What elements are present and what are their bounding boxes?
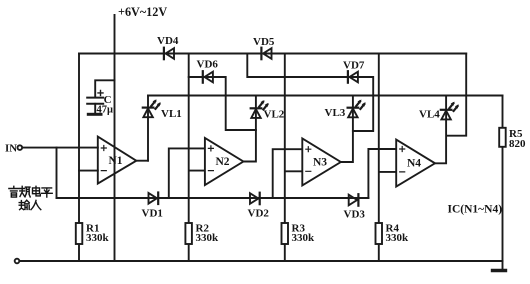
wire threshold line xyxy=(57,197,369,199)
diode VD3 xyxy=(344,194,366,220)
resistor R2 xyxy=(185,222,219,244)
svg-text:330k: 330k xyxy=(292,232,316,244)
terminal bottom-left circle xyxy=(15,259,20,264)
wire LED top line to R5 xyxy=(148,95,503,97)
resistor R4 xyxy=(376,222,410,244)
wire VD7 line xyxy=(247,54,373,132)
wire ground rail xyxy=(19,260,502,262)
wire VD6 line xyxy=(189,77,256,130)
svg-text:VD7: VD7 xyxy=(343,60,365,72)
svg-text:IN: IN xyxy=(5,142,17,154)
wire N2 minus vertical xyxy=(189,54,205,262)
svg-text:VL2: VL2 xyxy=(264,108,285,120)
svg-text:VD6: VD6 xyxy=(197,59,219,71)
wire R5 vertical xyxy=(502,96,504,262)
svg-text:330k: 330k xyxy=(196,232,220,244)
resistor R5 xyxy=(499,128,526,150)
capacitor C polarity plus xyxy=(98,90,103,95)
wire capacitor C stub xyxy=(95,80,114,112)
terminal IN circle xyxy=(18,145,23,150)
wire top rail xyxy=(79,53,466,55)
LED VL3 xyxy=(325,100,366,120)
svg-text:VD1: VD1 xyxy=(142,208,163,220)
wire +V supply vertical xyxy=(114,15,116,260)
node IC label xyxy=(448,204,503,216)
svg-text:47μ: 47μ xyxy=(97,105,114,116)
LED VL2 xyxy=(251,100,285,120)
wire N2 plus input xyxy=(169,148,205,198)
wire VL1 vertical xyxy=(147,96,149,161)
wire N3 plus input xyxy=(273,149,303,198)
wire N3 output xyxy=(341,96,353,163)
svg-text:IC(N1~N4): IC(N1~N4) xyxy=(448,204,503,216)
diode VD5 xyxy=(253,36,275,59)
wire R1 bottom xyxy=(78,244,80,261)
wire N2 output xyxy=(243,96,256,162)
op-amp N4 xyxy=(396,140,435,187)
wire IN drop xyxy=(56,148,58,198)
LED VL4 xyxy=(419,102,459,121)
node IN label xyxy=(5,142,17,154)
svg-text:+6V~12V: +6V~12V xyxy=(118,5,167,19)
diode VD2 xyxy=(248,193,270,220)
wire N4 output xyxy=(435,54,466,164)
wire N1 output xyxy=(136,160,148,162)
capacitor C label xyxy=(97,94,114,116)
svg-text:N3: N3 xyxy=(313,156,327,168)
wire N3 minus vertical xyxy=(285,54,303,262)
wire N4 plus input xyxy=(368,149,396,198)
svg-text:VD3: VD3 xyxy=(344,208,366,220)
svg-text:VD4: VD4 xyxy=(157,35,179,47)
op-amp N1 xyxy=(98,137,137,184)
node +6V~12V label xyxy=(118,5,167,19)
diode VD7 xyxy=(343,60,365,83)
svg-text:VD2: VD2 xyxy=(248,208,270,220)
svg-text:820: 820 xyxy=(509,138,526,150)
ground (main, bottom right) xyxy=(493,261,506,271)
wire left vertical (rail to R1) xyxy=(78,54,80,224)
LED VL1 xyxy=(143,99,182,120)
svg-text:VD5: VD5 xyxy=(253,36,275,48)
ground (capacitor) xyxy=(88,113,101,116)
svg-text:330k: 330k xyxy=(86,232,110,244)
svg-text:330k: 330k xyxy=(386,232,410,244)
op-amp N2 xyxy=(205,138,244,185)
node audio input label (Chinese) xyxy=(9,186,52,209)
resistor R1 xyxy=(76,222,110,244)
wire IN line xyxy=(22,147,98,149)
svg-text:N1: N1 xyxy=(109,155,123,167)
svg-text:N4: N4 xyxy=(407,157,421,169)
capacitor C plates xyxy=(87,98,103,104)
resistor R3 xyxy=(282,222,316,244)
svg-text:N2: N2 xyxy=(216,156,230,168)
svg-text:VL1: VL1 xyxy=(161,108,182,120)
svg-text:VL4: VL4 xyxy=(419,109,440,121)
diode VD4 xyxy=(157,35,179,59)
wire op-amp N1 minus input xyxy=(79,170,98,172)
wire N4 minus vertical xyxy=(379,54,396,262)
diode VD1 xyxy=(142,193,163,220)
svg-text:VL3: VL3 xyxy=(325,107,346,119)
diode VD6 xyxy=(197,59,219,83)
op-amp N3 xyxy=(302,138,341,185)
